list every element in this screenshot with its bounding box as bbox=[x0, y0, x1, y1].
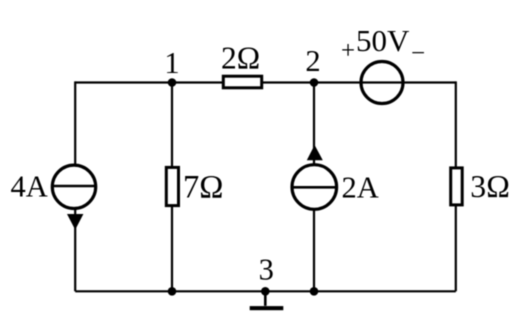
junction dot bottom left bbox=[168, 287, 177, 296]
svg-text:3Ω: 3Ω bbox=[470, 169, 510, 204]
wire top from left corner to right corner bbox=[75, 81, 456, 83]
wire bottom from left corner to right corner bbox=[75, 290, 456, 292]
node 3 dot bbox=[261, 287, 270, 296]
svg-text:7Ω: 7Ω bbox=[183, 170, 223, 206]
current source 4A arrow down bbox=[67, 214, 83, 230]
current source 2A arrow up bbox=[307, 145, 323, 160]
wire left vertical bbox=[74, 81, 76, 291]
wire node1 branch vertical bbox=[171, 83, 173, 292]
resistor R 7ohm bbox=[166, 167, 178, 205]
svg-text:1: 1 bbox=[164, 46, 179, 80]
current source 2A bar bbox=[292, 186, 337, 189]
current source 4A bar bbox=[52, 185, 95, 188]
node 2 dot bbox=[310, 78, 319, 87]
resistor R 3ohm bbox=[451, 168, 463, 205]
ground stub bbox=[264, 291, 267, 306]
resistor R 2ohm bbox=[223, 76, 261, 88]
junction dot bottom right bbox=[310, 287, 319, 296]
svg-text:4A: 4A bbox=[11, 170, 48, 204]
node 1 dot bbox=[168, 78, 177, 87]
voltage source 50V bar bbox=[361, 81, 403, 83]
ground bar bbox=[250, 306, 284, 310]
wire node2 branch vertical bbox=[313, 83, 315, 292]
svg-text:2: 2 bbox=[305, 44, 320, 78]
svg-text:2Ω: 2Ω bbox=[221, 41, 260, 76]
voltage source 50V circle bbox=[361, 62, 403, 104]
svg-text:2A: 2A bbox=[342, 171, 379, 205]
svg-text:3: 3 bbox=[259, 253, 274, 287]
current source 2A circle bbox=[292, 165, 337, 210]
svg-text:+: + bbox=[341, 37, 355, 64]
svg-text:−: − bbox=[411, 40, 425, 67]
current source 4A circle bbox=[52, 165, 95, 208]
svg-text:50V: 50V bbox=[356, 23, 410, 58]
wire right vertical bbox=[455, 81, 457, 291]
